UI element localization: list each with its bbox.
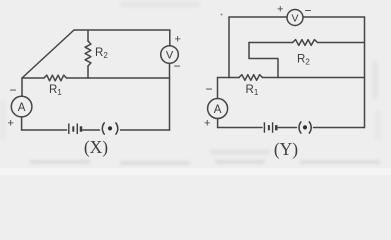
wire: X left vertical above ammeter <box>21 78 23 96</box>
svg-text:+: + <box>277 4 283 16</box>
svg-text:−: − <box>174 59 181 73</box>
stray dot top-left of Y <box>221 14 223 16</box>
svg-text:V: V <box>291 13 298 25</box>
paper background <box>0 0 391 175</box>
wire: Y key to right corner <box>314 127 365 129</box>
key dot (Y) <box>303 125 307 129</box>
wire: Y bottom left segment to battery <box>218 127 262 129</box>
ammeter A (Y) <box>208 99 228 119</box>
wire: X bottom left segment to battery <box>22 129 67 131</box>
resistor R1 (Y) <box>239 75 263 81</box>
wire: Y staircase from R1 node up <box>249 43 278 78</box>
wire: Y left vertical below ammeter <box>217 119 219 128</box>
plug key K1 (X) <box>102 123 117 134</box>
wire: X right vertical above voltmeter <box>169 30 171 46</box>
wire: X diagonal (top-left to R1 node) <box>22 30 74 78</box>
battery B1 (X) <box>69 124 81 135</box>
wire: X key to right corner <box>121 129 170 131</box>
wire: R2 lower lead <box>87 66 89 78</box>
wire: X left vertical below ammeter <box>21 117 23 130</box>
wire: Y jog at R1 node <box>218 77 230 79</box>
wire: X middle horizontal right of R1 <box>67 77 170 79</box>
wire: Y R2 lead left <box>249 42 293 44</box>
wire: X middle horizontal left of R1 <box>22 77 44 79</box>
wire: X top <box>74 29 170 31</box>
wire: Y left vertical upper <box>228 17 230 78</box>
resistor R2 (X) <box>85 41 91 66</box>
wire: Y right vertical <box>364 17 366 128</box>
wire: Y R1 lead left <box>229 77 239 79</box>
svg-text:−: − <box>206 82 213 96</box>
svg-text:+: + <box>204 118 210 130</box>
wire: X battery to key <box>83 129 100 131</box>
svg-text:−: − <box>305 4 312 18</box>
resistor R1 (X) <box>44 75 67 81</box>
wire: Y top left of voltmeter <box>229 16 287 18</box>
wire: Y battery to key <box>278 127 296 129</box>
plug key K2 (Y) <box>299 122 311 133</box>
svg-text:(Y): (Y) <box>274 139 298 159</box>
wire: R2 upper lead <box>87 31 89 41</box>
resistor R2 (Y) <box>293 40 318 46</box>
svg-text:−: − <box>10 83 17 97</box>
wire: Y left vertical above ammeter <box>217 78 219 99</box>
key dot (X) <box>108 126 112 130</box>
wire: Y R1 lead right to right vertical <box>263 77 365 79</box>
wire: Y R2 lead right <box>318 42 365 44</box>
svg-text:A: A <box>18 102 26 114</box>
wire: X right vertical below voltmeter <box>169 63 171 130</box>
svg-text:A: A <box>214 104 222 116</box>
wire: Y top right of voltmeter <box>303 16 365 18</box>
svg-text:(X): (X) <box>84 137 108 157</box>
ammeter A (X) <box>11 96 32 117</box>
svg-text:+: + <box>8 118 14 130</box>
battery B2 (Y) <box>264 122 276 132</box>
svg-text:+: + <box>175 34 181 46</box>
voltmeter V (X) <box>161 46 179 64</box>
voltmeter V (Y) <box>287 10 303 26</box>
